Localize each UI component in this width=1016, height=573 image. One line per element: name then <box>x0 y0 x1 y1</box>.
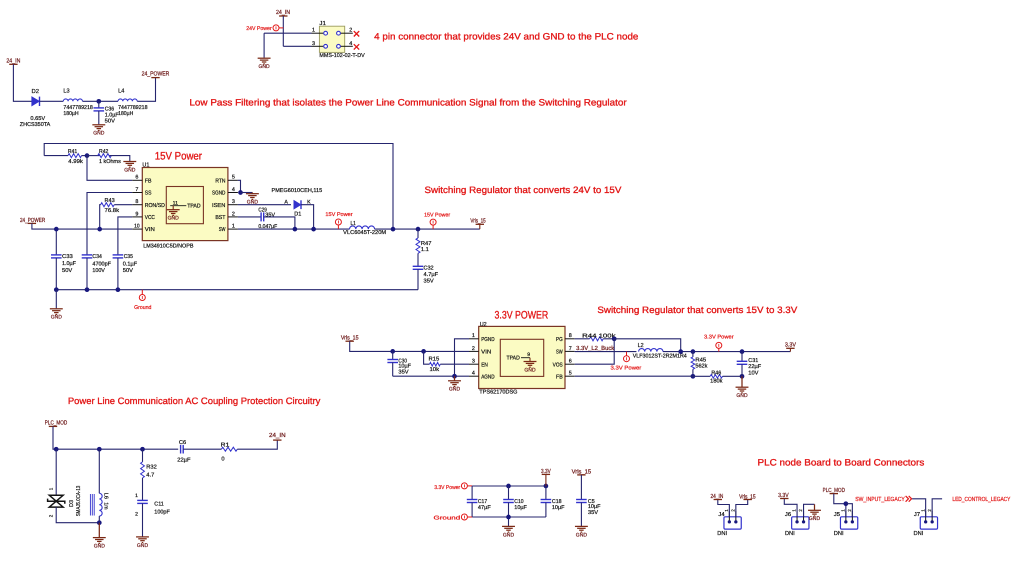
svg-text:J4: J4 <box>718 512 724 518</box>
wire <box>263 33 265 58</box>
svg-text:ZHCS350TA: ZHCS350TA <box>20 122 51 128</box>
connector J1 <box>319 26 344 52</box>
inductor L3 <box>63 88 93 117</box>
svg-text:3.3V POWER: 3.3V POWER <box>495 310 549 322</box>
svg-text:BST: BST <box>215 215 226 221</box>
svg-text:3: 3 <box>232 199 235 205</box>
svg-text:1: 1 <box>48 487 53 490</box>
wire ground rail <box>56 289 418 291</box>
wire <box>183 448 221 450</box>
svg-text:TPAD: TPAD <box>187 204 200 210</box>
wire <box>241 192 253 194</box>
ground <box>575 526 588 532</box>
U2 thermal pad box <box>500 339 543 376</box>
wire VIN <box>350 341 469 351</box>
svg-text:C34: C34 <box>92 254 101 260</box>
U1 thermal pad box <box>166 187 203 224</box>
junction <box>740 374 745 379</box>
svg-text:LED_CONTROL_LEGACY: LED_CONTROL_LEGACY <box>952 496 1010 503</box>
feedback wire <box>44 144 393 230</box>
svg-text:10µF: 10µF <box>514 505 527 511</box>
net Vrls_15 (C5) <box>572 468 592 475</box>
svg-text:MMS-102-02-T-DV: MMS-102-02-T-DV <box>319 53 365 59</box>
svg-text:180k: 180k <box>710 378 722 385</box>
wire <box>784 499 797 517</box>
svg-text:24V Power: 24V Power <box>246 26 272 32</box>
svg-text:3.3V Power: 3.3V Power <box>434 485 460 491</box>
svg-text:3: 3 <box>312 41 315 47</box>
wire <box>40 100 64 102</box>
junction <box>506 484 511 489</box>
svg-text:4 pin connector that provides: 4 pin connector that provides 24V and GN… <box>374 32 638 42</box>
wire <box>375 228 480 230</box>
junction <box>612 336 617 341</box>
svg-text:1.0µF: 1.0µF <box>62 261 77 267</box>
svg-text:C35: C35 <box>124 254 133 260</box>
U2 pin 9 TPAD <box>507 352 531 362</box>
svg-text:FB: FB <box>145 178 152 184</box>
svg-text:DNI: DNI <box>834 531 844 537</box>
junction <box>97 520 102 525</box>
svg-text:GND: GND <box>168 216 179 222</box>
wire PG to output <box>614 339 681 352</box>
junction <box>97 227 102 232</box>
svg-text:R42: R42 <box>99 149 108 155</box>
wire RTN to SGND <box>238 180 241 192</box>
svg-text:180µH: 180µH <box>118 111 133 117</box>
svg-text:6: 6 <box>569 359 572 365</box>
net Vrls_15 (input) <box>341 335 359 342</box>
ground (U2 TPAD) <box>524 358 537 374</box>
wire <box>282 16 284 46</box>
U1 pin 2 BST <box>215 211 238 221</box>
wire <box>718 500 730 517</box>
resistor R15 <box>424 351 469 373</box>
net 24_IN power port (filter input) <box>6 57 20 64</box>
op-amp U1 (regulator LM34910) <box>142 168 228 241</box>
U1 pin 6 FB <box>132 175 151 185</box>
no-ERC marker <box>354 31 359 36</box>
junction <box>691 374 696 379</box>
resistor R44 <box>575 332 616 340</box>
svg-text:VIN: VIN <box>481 350 491 356</box>
wire <box>53 426 178 449</box>
svg-text:562k: 562k <box>695 362 707 369</box>
svg-text:GND: GND <box>51 315 62 321</box>
wire <box>804 504 815 517</box>
svg-text:2: 2 <box>472 346 475 352</box>
junction <box>85 287 90 292</box>
diode D1 <box>272 188 323 218</box>
svg-text:1m: 1m <box>103 502 109 509</box>
svg-text:7: 7 <box>135 187 138 193</box>
wire 3.3V bypass rail <box>472 485 546 487</box>
ground <box>448 376 461 386</box>
svg-text:PLC node Board to Board Connec: PLC node Board to Board Connectors <box>758 458 925 468</box>
svg-text:35V: 35V <box>265 213 275 219</box>
wire 24V rail <box>32 223 132 229</box>
capacitor C17 <box>467 486 492 517</box>
ground <box>123 162 136 168</box>
wire SW <box>575 351 637 353</box>
svg-text:GND: GND <box>93 131 104 137</box>
wire <box>479 224 481 229</box>
diode D2 <box>20 88 51 128</box>
svg-text:R44 100k: R44 100k <box>582 332 616 339</box>
svg-text:VOS: VOS <box>553 362 563 368</box>
svg-text:R43: R43 <box>105 198 115 204</box>
op-amp U2 (regulator TPS62170) <box>479 326 565 388</box>
capacitor C36 <box>94 101 120 124</box>
net 3.3V <box>785 342 796 349</box>
svg-text:J6: J6 <box>785 512 791 518</box>
svg-text:GND: GND <box>736 393 747 399</box>
U1 pin 10 VIN <box>132 224 155 234</box>
svg-text:22µF: 22µF <box>748 364 761 370</box>
resistor R45 <box>691 352 707 377</box>
net port SW_INPUT_LEGACY <box>855 496 911 503</box>
wire <box>98 516 100 523</box>
wire SW rail <box>238 228 350 230</box>
svg-text:10: 10 <box>134 224 140 230</box>
svg-text:4.99k: 4.99k <box>68 158 83 165</box>
U1 pin 4 SGND <box>212 187 238 197</box>
resistor R41 <box>44 149 87 165</box>
no-ERC marker <box>354 44 359 49</box>
svg-text:9: 9 <box>527 352 530 358</box>
svg-text:15V Power: 15V Power <box>155 150 203 162</box>
wire PGND <box>455 339 470 376</box>
svg-text:3.3V Power: 3.3V Power <box>704 335 734 341</box>
svg-text:5: 5 <box>569 371 572 377</box>
svg-text:35V: 35V <box>398 370 408 376</box>
inductor L6 <box>90 449 108 516</box>
net 24_IN (J4) <box>711 493 724 500</box>
svg-text:1 kOhms: 1 kOhms <box>99 158 121 165</box>
svg-text:Ground: Ground <box>134 305 151 311</box>
wire SS <box>87 193 132 255</box>
svg-text:D3: D3 <box>69 500 75 507</box>
svg-text:Vrls_15: Vrls_15 <box>470 218 486 225</box>
svg-text:GND: GND <box>809 516 820 522</box>
ground (TPAD) <box>167 206 180 222</box>
svg-text:35V: 35V <box>424 279 434 285</box>
svg-text:SW: SW <box>219 227 226 233</box>
resistor R43 <box>100 198 133 229</box>
wire ISEN to diode <box>238 204 291 206</box>
resistor R32 <box>141 449 157 500</box>
svg-text:4700pF: 4700pF <box>92 261 111 267</box>
junction <box>293 227 298 232</box>
junction <box>116 287 121 292</box>
svg-text:C31: C31 <box>748 358 758 364</box>
svg-text:L2: L2 <box>638 342 644 349</box>
ground <box>736 376 749 393</box>
U2 pin 5 FB <box>556 371 575 381</box>
svg-text:J7: J7 <box>914 512 920 518</box>
svg-text:4.7: 4.7 <box>146 472 154 478</box>
junction <box>311 227 316 232</box>
svg-text:GND: GND <box>503 532 514 538</box>
svg-text:100pF: 100pF <box>154 509 170 515</box>
junction <box>544 484 549 489</box>
svg-text:LM34910C5D/NOPB: LM34910C5D/NOPB <box>143 242 194 249</box>
svg-text:22µF: 22µF <box>177 457 191 463</box>
svg-text:TPS62170DSG: TPS62170DSG <box>479 389 517 395</box>
J1 pin 1 <box>312 28 328 35</box>
net PLC_MOD (J5) <box>823 487 846 494</box>
transistor D3 TVS diode <box>48 486 82 518</box>
svg-text:15V Power: 15V Power <box>325 212 352 218</box>
wire <box>789 348 791 351</box>
svg-text:PGND: PGND <box>481 337 494 343</box>
svg-text:7: 7 <box>569 346 572 352</box>
U1 pin 7 SS <box>132 187 151 197</box>
svg-text:U2: U2 <box>480 321 487 328</box>
connector J6 <box>792 511 809 529</box>
svg-text:C6: C6 <box>179 440 186 446</box>
capacitor C5 <box>576 475 601 527</box>
ground <box>92 125 105 131</box>
wire <box>83 100 119 102</box>
wire <box>545 474 547 486</box>
net 3.3V <box>541 468 551 475</box>
capacitor C29 <box>238 207 278 230</box>
svg-text:180µH: 180µH <box>63 111 78 117</box>
svg-text:5: 5 <box>232 175 235 181</box>
U2 pin 3 EN <box>469 359 488 369</box>
capacitor C10 <box>503 486 527 526</box>
svg-text:SS: SS <box>145 191 152 197</box>
capacitor C31 <box>737 352 762 377</box>
svg-text:L1: L1 <box>351 221 356 227</box>
svg-text:PLC_MOD: PLC_MOD <box>45 420 68 427</box>
junction <box>85 153 90 158</box>
J1 pin 4 (no connect) <box>337 41 353 48</box>
junction <box>421 349 426 354</box>
svg-text:GND: GND <box>449 387 460 393</box>
power port 15V Power <box>335 219 341 229</box>
power port 24V Power <box>273 25 283 31</box>
svg-text:8: 8 <box>569 333 572 339</box>
svg-text:AGND: AGND <box>481 374 494 380</box>
svg-text:ISEN: ISEN <box>212 203 225 209</box>
junction <box>740 349 745 354</box>
svg-text:2: 2 <box>48 514 53 517</box>
svg-text:C33: C33 <box>62 254 73 260</box>
capacitor C35 <box>113 254 138 290</box>
connector J7 <box>920 511 937 529</box>
junction <box>691 349 696 354</box>
svg-text:15V Power: 15V Power <box>424 213 450 219</box>
svg-text:2: 2 <box>135 511 138 517</box>
net 24_IN <box>269 432 286 440</box>
svg-text:D2: D2 <box>32 88 40 95</box>
net 24_IN power port (top) <box>276 9 290 16</box>
svg-text:VLF3012ST-2R2M1R4: VLF3012ST-2R2M1R4 <box>633 354 687 360</box>
svg-text:VLC6045T-220M: VLC6045T-220M <box>343 230 386 236</box>
junction <box>844 501 849 506</box>
svg-text:R1: R1 <box>221 443 230 449</box>
net PLC_MOD power port <box>45 420 68 427</box>
capacitor C18 <box>541 486 565 517</box>
capacitor C30 <box>387 351 411 376</box>
svg-text:2: 2 <box>232 211 235 217</box>
svg-text:L3: L3 <box>63 88 69 95</box>
svg-text:8: 8 <box>135 199 138 205</box>
net Vrls_15 <box>470 218 486 225</box>
connector J5 <box>840 511 857 529</box>
wire <box>137 78 155 102</box>
junction <box>140 447 145 452</box>
svg-text:R15: R15 <box>429 357 440 363</box>
wire <box>55 449 57 495</box>
svg-text:1: 1 <box>472 333 475 339</box>
svg-text:RTN: RTN <box>215 178 225 184</box>
svg-text:EN: EN <box>481 362 488 368</box>
svg-text:1: 1 <box>232 224 235 230</box>
svg-text:35V: 35V <box>588 510 598 516</box>
wire <box>301 205 314 229</box>
svg-text:GND: GND <box>524 367 535 373</box>
svg-text:SW: SW <box>556 350 563 356</box>
svg-text:J5: J5 <box>834 512 840 518</box>
junction <box>238 190 243 195</box>
power port 3.3V Power <box>461 483 472 489</box>
svg-text:100V: 100V <box>92 268 105 274</box>
svg-text:R46: R46 <box>711 371 721 377</box>
inductor L2 <box>633 342 687 360</box>
U2 pin 6 VOS <box>553 359 575 369</box>
svg-text:VIN: VIN <box>145 227 155 233</box>
U1 pin 11 TPAD <box>170 200 200 209</box>
wire 3.3V rail <box>663 351 790 353</box>
svg-text:Ground: Ground <box>434 516 461 522</box>
svg-text:0.1µF: 0.1µF <box>123 261 138 267</box>
junction <box>506 515 511 520</box>
svg-text:1.1: 1.1 <box>421 247 429 253</box>
J1 pin 3 <box>312 41 328 48</box>
svg-text:VCC: VCC <box>145 215 155 221</box>
junction <box>96 99 101 104</box>
svg-text:1: 1 <box>312 28 315 34</box>
svg-text:4: 4 <box>349 41 352 47</box>
svg-text:10V: 10V <box>748 370 758 376</box>
svg-text:76.8k: 76.8k <box>105 207 120 214</box>
net Vrls_15 (J4) <box>739 493 756 500</box>
U2 pin 8 PG <box>556 333 575 343</box>
svg-text:50V: 50V <box>123 268 133 274</box>
svg-text:GND: GND <box>576 532 587 538</box>
J1 pin 2 (no connect) <box>337 28 353 35</box>
U1 pin 9 VCC <box>132 211 155 221</box>
power port Ground <box>461 514 472 520</box>
ground <box>258 58 271 64</box>
svg-text:50V: 50V <box>62 268 72 274</box>
wire VOS <box>575 339 615 364</box>
power port Ground <box>139 290 145 301</box>
junction <box>390 349 395 354</box>
U1 pin 5 RTN <box>215 175 238 185</box>
svg-text:0: 0 <box>221 457 224 463</box>
U1 pin 1 SW <box>219 224 238 234</box>
svg-text:GND: GND <box>137 543 148 549</box>
svg-text:L4: L4 <box>118 89 125 95</box>
svg-text:R41: R41 <box>68 149 77 155</box>
junction <box>97 447 102 452</box>
svg-text:Power Line Communication AC Co: Power Line Communication AC Coupling Pro… <box>68 396 321 406</box>
wire <box>264 217 295 229</box>
connector J4 <box>724 511 741 529</box>
capacitor C6 <box>177 440 191 463</box>
svg-text:DNI: DNI <box>717 531 727 537</box>
wire <box>834 494 846 517</box>
capacitor C11 <box>135 493 170 537</box>
svg-text:C11: C11 <box>154 501 164 507</box>
resistor R1 <box>221 443 238 463</box>
capacitor C34 <box>82 254 112 290</box>
U1 pin 8 RON/SD <box>132 199 165 209</box>
svg-text:R32: R32 <box>146 464 157 470</box>
svg-text:TPAD: TPAD <box>507 356 520 362</box>
svg-text:4: 4 <box>232 187 235 193</box>
capacitor C32 <box>413 253 439 289</box>
net 3.3V (J6) <box>778 492 789 499</box>
inductor L1 <box>343 221 386 236</box>
wire <box>912 499 926 517</box>
wire <box>932 499 942 517</box>
svg-text:4: 4 <box>472 371 475 377</box>
svg-text:24_IN: 24_IN <box>269 432 286 439</box>
svg-text:DNI: DNI <box>785 531 795 537</box>
resistor R47 <box>416 229 432 253</box>
svg-text:24_POWER: 24_POWER <box>142 70 170 77</box>
svg-text:C17: C17 <box>478 499 487 505</box>
svg-text:4.7µF: 4.7µF <box>424 272 439 278</box>
wire AGND row <box>393 375 469 377</box>
ground <box>50 309 63 315</box>
wire FB <box>87 156 132 181</box>
svg-text:U1: U1 <box>142 163 149 169</box>
svg-text:2: 2 <box>349 28 352 34</box>
svg-text:GND: GND <box>124 167 135 173</box>
svg-text:3: 3 <box>472 359 475 365</box>
junction <box>54 287 59 292</box>
svg-text:FB: FB <box>556 374 563 380</box>
wire <box>13 64 31 101</box>
svg-text:DNI: DNI <box>914 531 924 537</box>
svg-text:6: 6 <box>135 175 138 181</box>
svg-text:Switching Regulator that conve: Switching Regulator that converts 15V to… <box>597 305 798 315</box>
capacitor C33 <box>51 229 77 290</box>
svg-text:PG: PG <box>556 337 563 343</box>
wire <box>237 440 277 449</box>
svg-text:50V: 50V <box>105 118 115 124</box>
svg-text:Low Pass Filtering that isolat: Low Pass Filtering that isolates the Pow… <box>189 97 626 107</box>
power port 3.3V Power <box>624 352 630 362</box>
ground <box>246 193 259 200</box>
wire <box>264 32 311 34</box>
svg-text:1: 1 <box>135 493 138 499</box>
U1 pin 3 ISEN <box>212 199 238 209</box>
svg-text:L6: L6 <box>103 493 109 499</box>
resistor R42 <box>87 149 130 165</box>
svg-text:A: A <box>284 199 288 205</box>
inductor L4 <box>118 89 148 117</box>
junction <box>416 227 421 232</box>
U2 pin 7 SW <box>556 346 575 356</box>
wire <box>736 500 748 517</box>
